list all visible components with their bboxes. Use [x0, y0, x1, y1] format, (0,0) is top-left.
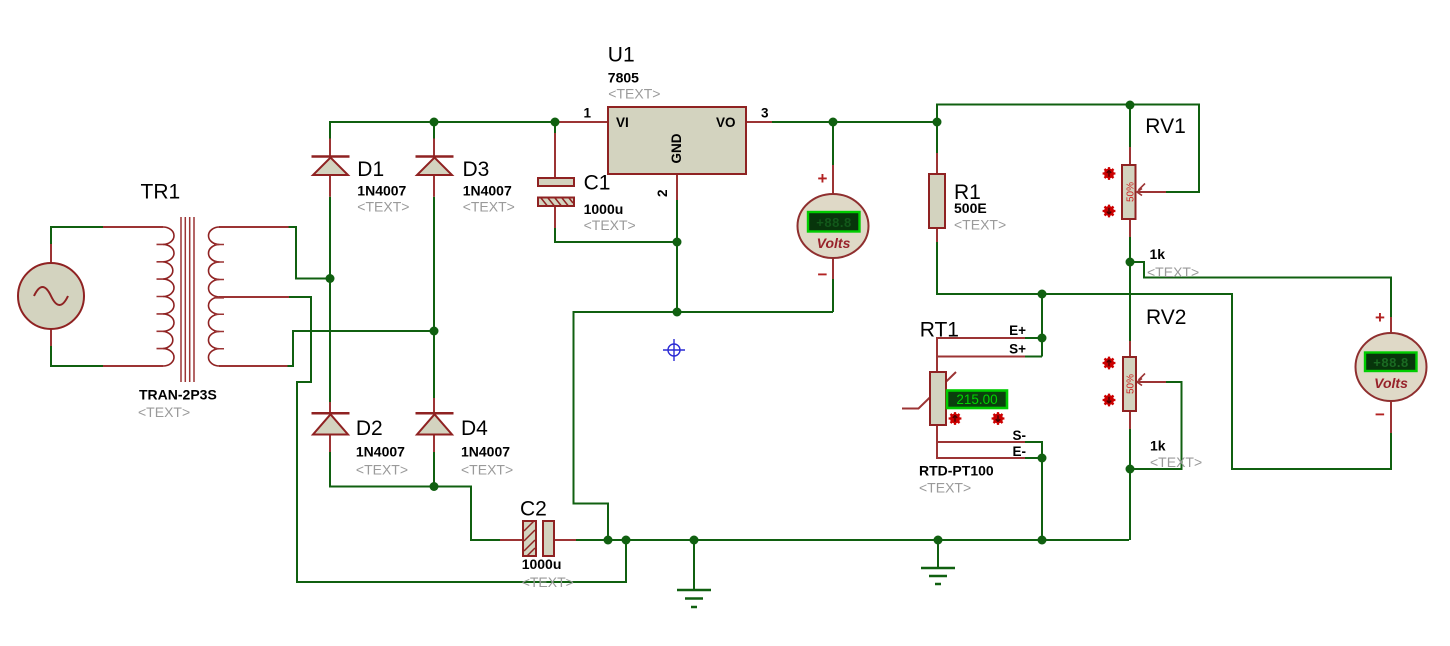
svg-text:<TEXT>: <TEXT>: [1147, 264, 1199, 280]
svg-text:215.00: 215.00: [956, 392, 997, 407]
svg-text:<TEXT>: <TEXT>: [461, 462, 513, 478]
svg-text:1000u: 1000u: [584, 201, 624, 217]
svg-text:3: 3: [761, 106, 769, 121]
svg-text:500E: 500E: [954, 200, 987, 216]
svg-text:7805: 7805: [608, 69, 639, 85]
svg-text:<TEXT>: <TEXT>: [357, 199, 409, 215]
svg-text:<TEXT>: <TEXT>: [919, 480, 971, 496]
svg-text:D2: D2: [356, 417, 383, 440]
svg-text:+: +: [1375, 308, 1385, 327]
svg-text:TR1: TR1: [141, 181, 181, 204]
svg-text:S+: S+: [1009, 342, 1026, 357]
svg-text:<TEXT>: <TEXT>: [463, 199, 515, 215]
svg-text:<TEXT>: <TEXT>: [138, 404, 190, 420]
svg-text:<TEXT>: <TEXT>: [1150, 454, 1202, 470]
svg-text:1000u: 1000u: [522, 556, 562, 572]
svg-text:50%: 50%: [1126, 374, 1137, 394]
svg-text:S-: S-: [1013, 428, 1027, 443]
svg-text:1N4007: 1N4007: [357, 183, 406, 199]
svg-text:GND: GND: [669, 133, 684, 163]
svg-text:D1: D1: [357, 158, 384, 181]
svg-text:+: +: [818, 169, 828, 188]
svg-text:−: −: [818, 265, 828, 284]
svg-text:+88.8: +88.8: [1373, 355, 1408, 370]
svg-text:50%: 50%: [1126, 182, 1137, 202]
svg-text:RTD-PT100: RTD-PT100: [919, 463, 994, 479]
svg-text:VI: VI: [616, 115, 629, 130]
svg-text:RV1: RV1: [1145, 115, 1185, 138]
svg-text:D4: D4: [461, 417, 488, 440]
svg-text:+88.8: +88.8: [816, 215, 851, 230]
svg-text:1: 1: [583, 106, 591, 121]
svg-text:<TEXT>: <TEXT>: [356, 462, 408, 478]
svg-text:1N4007: 1N4007: [461, 444, 510, 460]
svg-text:RT1: RT1: [920, 319, 959, 342]
svg-text:E-: E-: [1013, 444, 1027, 459]
svg-text:<TEXT>: <TEXT>: [954, 217, 1006, 233]
svg-text:U1: U1: [608, 43, 635, 66]
svg-text:E+: E+: [1009, 323, 1026, 338]
svg-text:RV2: RV2: [1146, 306, 1186, 329]
svg-text:1N4007: 1N4007: [356, 444, 405, 460]
svg-text:<TEXT>: <TEXT>: [522, 574, 574, 590]
svg-text:VO: VO: [716, 115, 736, 130]
svg-text:Volts: Volts: [817, 235, 851, 251]
svg-text:Volts: Volts: [1374, 375, 1408, 391]
svg-text:C1: C1: [584, 172, 611, 195]
svg-text:−: −: [1375, 405, 1385, 424]
svg-text:1N4007: 1N4007: [463, 183, 512, 199]
svg-text:C2: C2: [520, 498, 547, 521]
svg-text:D3: D3: [463, 158, 490, 181]
svg-text:TRAN-2P3S: TRAN-2P3S: [139, 387, 217, 403]
svg-text:<TEXT>: <TEXT>: [584, 217, 636, 233]
svg-text:2: 2: [655, 189, 670, 197]
svg-text:1k: 1k: [1150, 438, 1166, 454]
svg-text:1k: 1k: [1150, 246, 1166, 262]
svg-text:<TEXT>: <TEXT>: [608, 86, 660, 102]
